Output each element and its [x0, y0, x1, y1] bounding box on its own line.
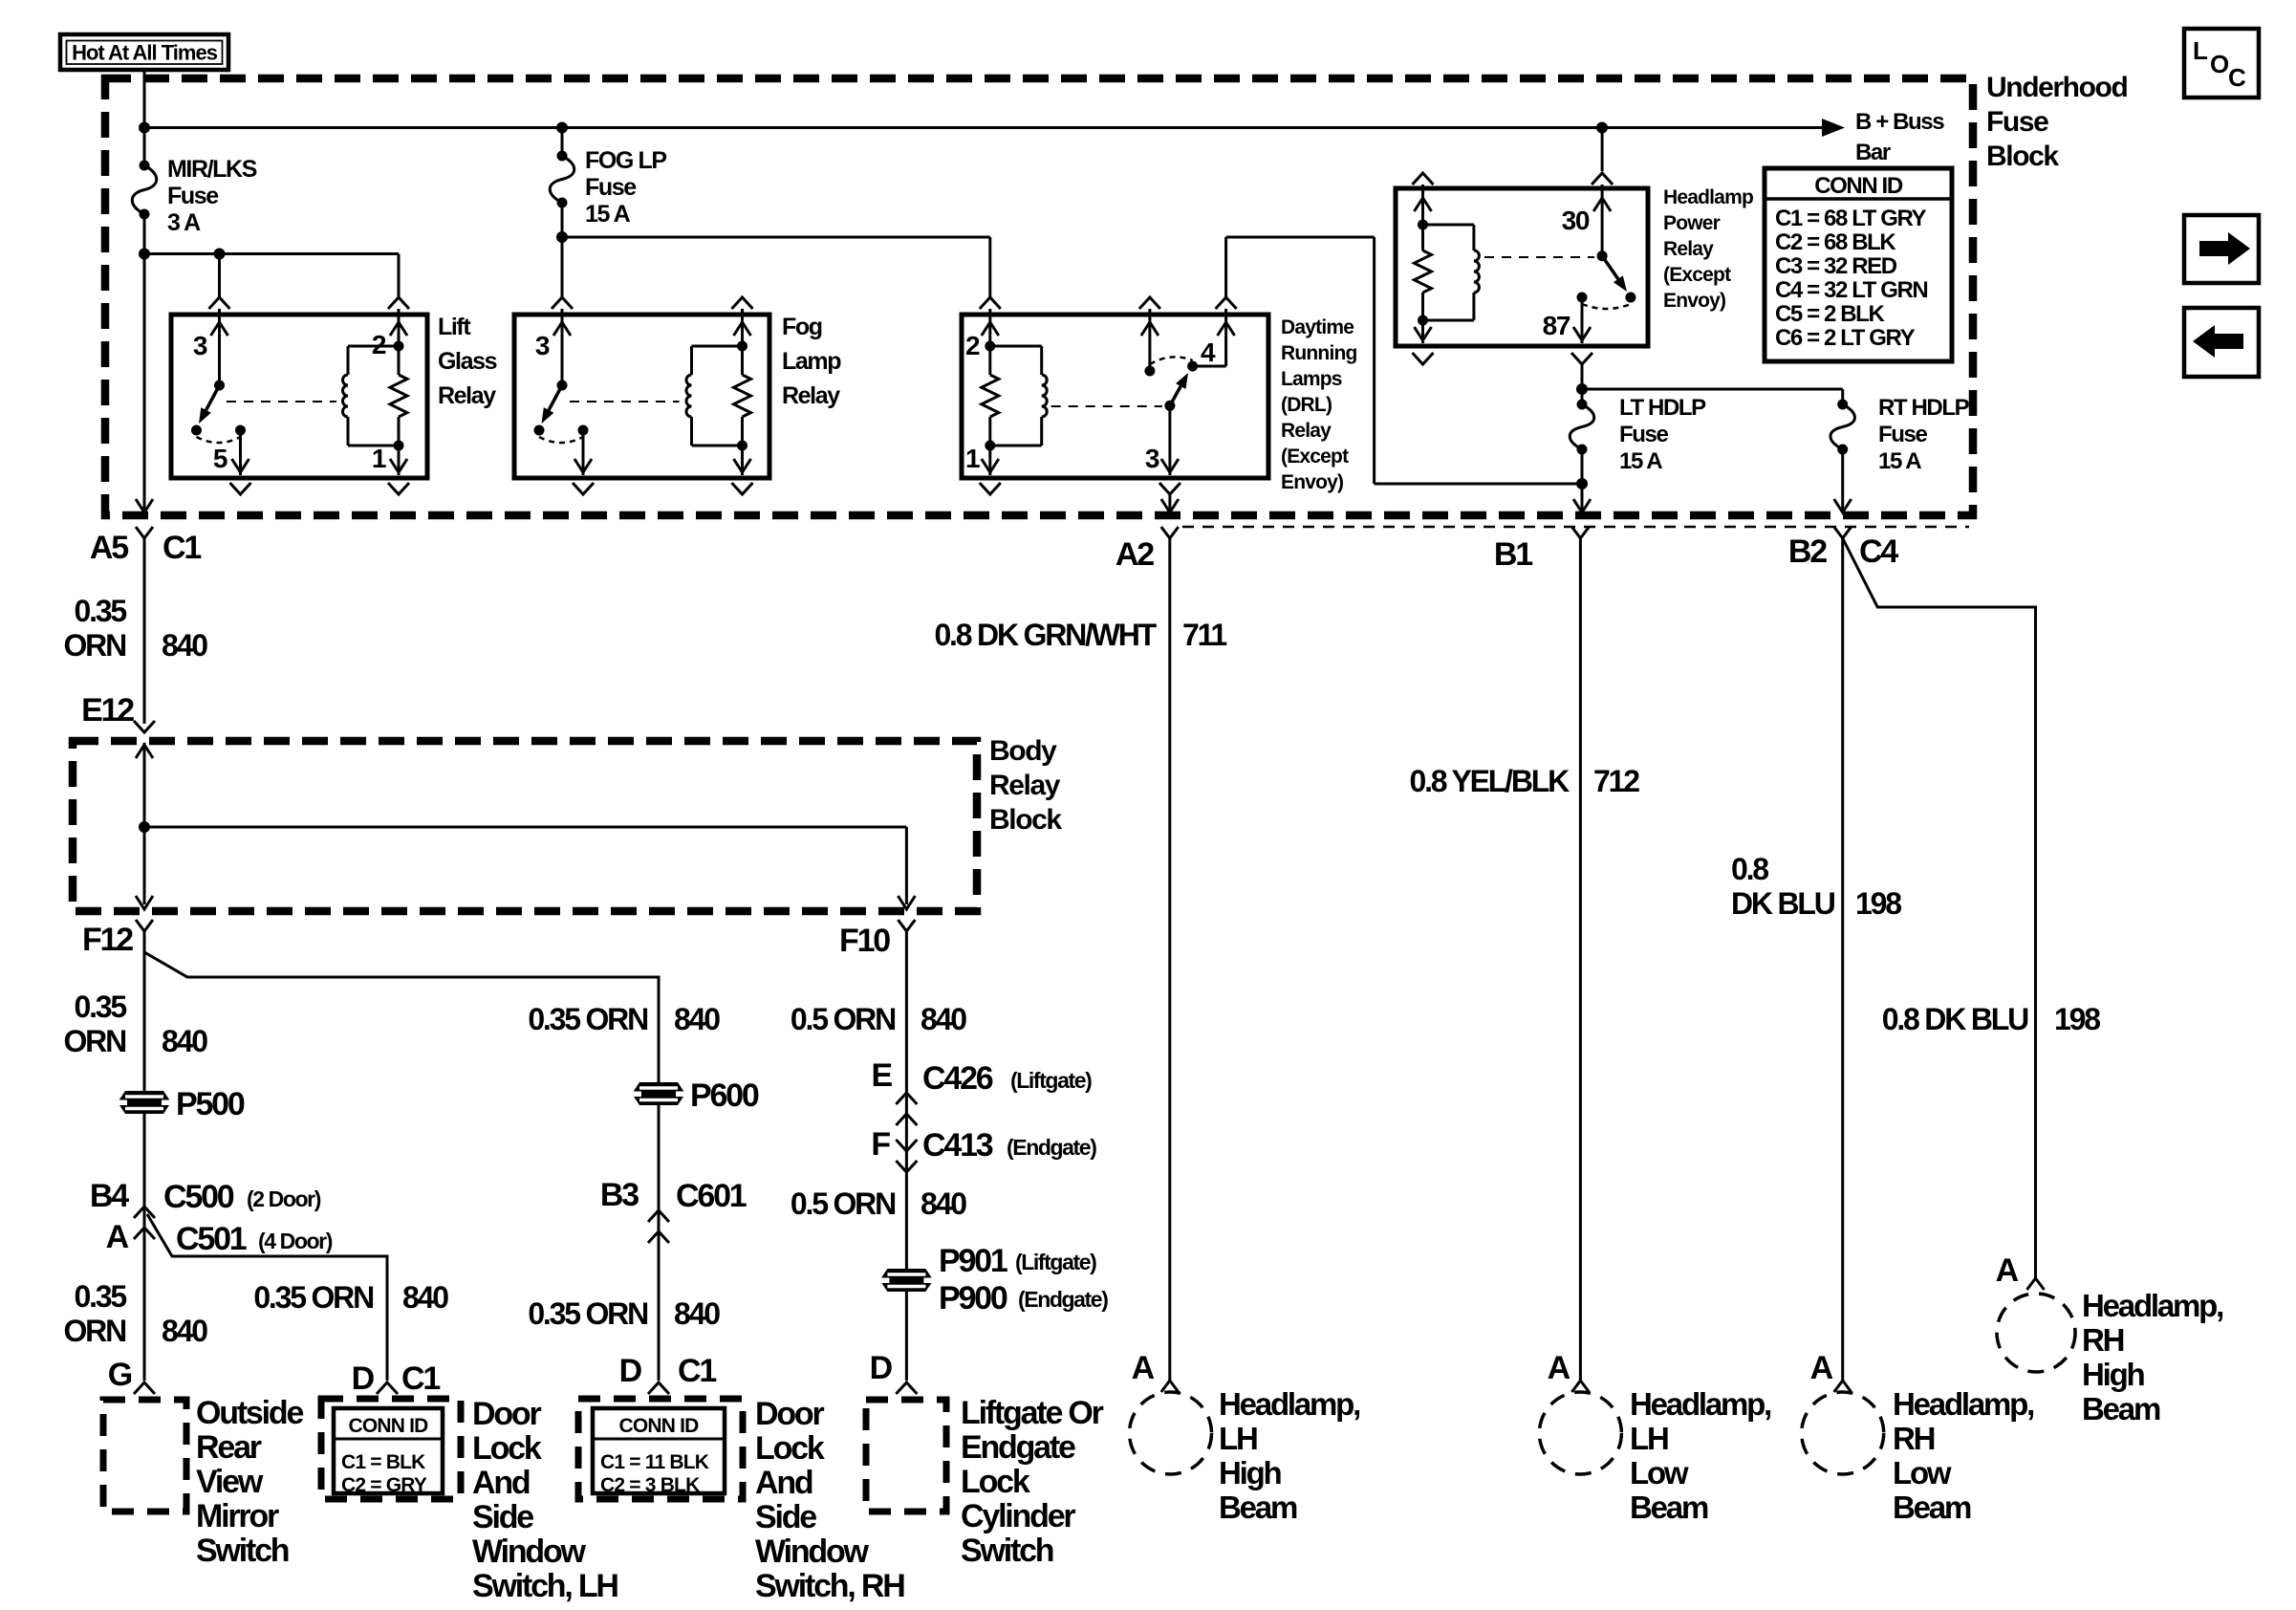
resistor K1 [390, 375, 407, 417]
Body Relay Block dashed enclosure [73, 741, 977, 911]
svg-text:C413: C413 [922, 1127, 993, 1164]
relay Headlamp Power box [1396, 188, 1648, 346]
svg-text:4: 4 [1201, 337, 1216, 367]
contact dot K2 b [578, 425, 589, 436]
switch arc K1 [197, 437, 241, 443]
DRL switch blade [1170, 386, 1180, 405]
connector chevron below HP coil pin [1413, 353, 1434, 364]
wire A2 to LH high beam [1168, 538, 1171, 1381]
pin 87 lead [1581, 297, 1584, 343]
svg-text:Rear: Rear [196, 1429, 262, 1466]
wire E12 inside body block [143, 743, 146, 904]
svg-text:A2: A2 [1116, 536, 1154, 573]
relay Fog Lamp Relay box [514, 315, 769, 478]
svg-text:Cylinder: Cylinder [961, 1498, 1075, 1534]
svg-text:Relay: Relay [1663, 238, 1714, 260]
DRL coil branch [990, 345, 1042, 348]
svg-text:Headlamp,: Headlamp, [1219, 1386, 1359, 1422]
svg-text:C1: C1 [401, 1360, 440, 1397]
connector chevron below DRL pin1 [980, 483, 1001, 494]
linkage dashed K1 [227, 401, 336, 402]
svg-text:30: 30 [1562, 206, 1590, 235]
svg-text:15 A: 15 A [585, 201, 631, 228]
node bus at FOG LP fuse [556, 122, 568, 134]
svg-text:L: L [2193, 36, 2208, 65]
svg-text:840: 840 [921, 1186, 966, 1221]
fuse FOG LP 15A [561, 128, 564, 157]
HP coil bottom lead [1421, 320, 1424, 343]
svg-text:C6 = 2 LT GRY: C6 = 2 LT GRY [1775, 325, 1916, 351]
svg-text:B3: B3 [600, 1177, 639, 1213]
svg-text:2: 2 [965, 331, 980, 360]
LOC reference box [2184, 29, 2259, 98]
Door Lock LH dashed box [321, 1399, 461, 1499]
svg-text:B + Buss: B + Buss [1855, 109, 1944, 135]
lamp Headlamp RH Low Beam [1802, 1392, 1884, 1474]
svg-text:15 A: 15 A [1619, 448, 1662, 474]
svg-text:Beam: Beam [1219, 1490, 1297, 1525]
wire C4 to RH high beam [1843, 538, 2036, 1278]
pin 5 lead [239, 430, 242, 475]
svg-text:Fuse: Fuse [167, 183, 219, 209]
connector chevron above fog coil pin [732, 297, 753, 309]
svg-text:Fog: Fog [782, 314, 822, 340]
svg-text:Daytime: Daytime [1281, 316, 1354, 338]
svg-text:840: 840 [162, 1314, 207, 1348]
DRL switch pivot dot [1164, 401, 1175, 411]
switch arc K2 [539, 437, 583, 443]
svg-text:Fuse: Fuse [1878, 422, 1927, 447]
splice P500 [118, 1091, 171, 1114]
svg-text:Switch: Switch [961, 1533, 1053, 1569]
svg-text:Low: Low [1893, 1455, 1952, 1490]
connector chevron above pin3 [209, 297, 230, 309]
svg-text:0.35 ORN: 0.35 ORN [528, 1002, 647, 1036]
svg-text:Relay: Relay [1281, 420, 1332, 442]
HP switch blade [1602, 256, 1618, 279]
coil branch K1 [348, 345, 399, 348]
svg-text:840: 840 [674, 1296, 720, 1331]
Door Lock RH dashed box [578, 1399, 743, 1499]
wire body block to F10 [144, 826, 906, 829]
node below FOG LP fuse [556, 231, 568, 243]
svg-text:(DRL): (DRL) [1281, 394, 1332, 416]
pin 1 lead [398, 446, 401, 475]
svg-text:Mirror: Mirror [196, 1498, 279, 1534]
connector F12 [136, 920, 153, 931]
relay DRL box [962, 315, 1268, 478]
fog bottom-left pin lead [582, 430, 585, 475]
svg-text:Side: Side [472, 1499, 533, 1535]
svg-text:P901: P901 [939, 1243, 1007, 1279]
svg-text:B4: B4 [90, 1178, 129, 1214]
svg-text:Switch: Switch [196, 1533, 289, 1569]
svg-text:Lock: Lock [961, 1464, 1030, 1500]
svg-text:Underhood: Underhood [1986, 72, 2127, 103]
svg-text:C2 = GRY: C2 = GRY [341, 1474, 427, 1496]
svg-text:Envoy): Envoy) [1281, 471, 1343, 493]
connector C501 [134, 1228, 155, 1239]
svg-text:CONN ID: CONN ID [348, 1415, 428, 1437]
wire B1 to LH low beam [1579, 538, 1582, 1381]
relay Lift Glass Relay box [171, 315, 427, 478]
pin 2 lead [398, 309, 401, 346]
connector chevron below pin5 [230, 483, 251, 494]
svg-text:3 A: 3 A [167, 209, 201, 236]
svg-text:F10: F10 [839, 923, 890, 959]
DRL pin 3 lead [1168, 405, 1171, 475]
svg-text:0.35 ORN: 0.35 ORN [528, 1296, 647, 1331]
DRL pin4 link [1193, 365, 1226, 368]
svg-text:Lift: Lift [438, 314, 471, 340]
svg-text:Fuse: Fuse [585, 174, 637, 201]
svg-text:C1 = BLK: C1 = BLK [341, 1451, 425, 1473]
svg-text:0.8: 0.8 [1731, 852, 1768, 886]
svg-text:Bar: Bar [1855, 140, 1891, 165]
svg-text:C500: C500 [163, 1179, 234, 1215]
connector chevron above HP coil pin [1413, 173, 1434, 185]
fog coil top node [737, 341, 747, 352]
svg-text:D: D [870, 1350, 893, 1386]
svg-text:712: 712 [1593, 764, 1639, 798]
DRL coil top node [985, 341, 995, 352]
svg-text:Running: Running [1281, 342, 1357, 364]
svg-text:P900: P900 [939, 1280, 1007, 1316]
svg-text:C4: C4 [1859, 533, 1898, 570]
wire drop to pin 3 [218, 254, 221, 299]
svg-text:MIR/LKS: MIR/LKS [167, 156, 257, 183]
DRL resistor [982, 375, 999, 417]
svg-text:P600: P600 [690, 1077, 759, 1114]
svg-text:Low: Low [1630, 1455, 1689, 1490]
wire branch C501 to door lock LH [147, 1214, 387, 1381]
svg-text:Headlamp,: Headlamp, [1893, 1386, 2033, 1422]
svg-text:A: A [1132, 1350, 1155, 1386]
svg-text:3: 3 [1145, 444, 1159, 473]
svg-text:C1 = 11 BLK: C1 = 11 BLK [600, 1451, 709, 1473]
svg-text:Window: Window [472, 1534, 587, 1570]
svg-text:Relay: Relay [989, 770, 1061, 801]
splice P600 [632, 1082, 685, 1105]
svg-text:5: 5 [213, 444, 227, 473]
svg-text:Fuse: Fuse [1986, 106, 2048, 138]
svg-text:B1: B1 [1494, 536, 1532, 573]
svg-text:(Except: (Except [1281, 446, 1349, 468]
svg-text:DK BLU: DK BLU [1731, 886, 1835, 921]
svg-text:O: O [2210, 50, 2229, 78]
lamp Headlamp LH High Beam [1130, 1392, 1212, 1474]
svg-text:A: A [1548, 1350, 1570, 1386]
svg-text:C3 = 32 RED: C3 = 32 RED [1775, 253, 1897, 279]
svg-text:Beam: Beam [2082, 1391, 2160, 1426]
coil bottom node K1 [394, 441, 404, 451]
svg-text:840: 840 [162, 1024, 207, 1058]
wire bus to pin 30 [1601, 128, 1604, 172]
svg-text:View: View [196, 1464, 264, 1500]
svg-text:Side: Side [755, 1499, 816, 1535]
contact dot K2 a [534, 425, 545, 436]
svg-text:840: 840 [162, 628, 207, 663]
svg-text:Beam: Beam [1630, 1490, 1708, 1525]
svg-text:LH: LH [1219, 1421, 1257, 1456]
fog resistor [734, 375, 751, 417]
svg-text:0.8 DK GRN/WHT: 0.8 DK GRN/WHT [934, 618, 1157, 652]
wire P600 to door lock RH [658, 1105, 661, 1381]
svg-text:Door: Door [472, 1396, 541, 1432]
connector B2/C4 [1834, 527, 1852, 538]
svg-text:High: High [1219, 1455, 1282, 1490]
svg-text:RT HDLP: RT HDLP [1878, 395, 1970, 421]
wire to RT fuse [1582, 388, 1843, 391]
DRL coil bottom node [985, 441, 995, 451]
svg-text:1: 1 [372, 444, 386, 473]
fog coil bottom pin lead [741, 446, 744, 475]
svg-text:0.35 ORN: 0.35 ORN [253, 1280, 373, 1315]
fuse LT HDLP 15A [1581, 389, 1584, 404]
wire B2 to RH low beam [1841, 538, 1844, 1381]
fog coil bottom node [737, 441, 747, 451]
svg-text:(4 Door): (4 Door) [258, 1229, 333, 1253]
svg-text:C1: C1 [678, 1353, 716, 1389]
HP coil bottom node [1418, 315, 1428, 326]
svg-text:Lamp: Lamp [782, 348, 841, 375]
svg-text:Liftgate Or: Liftgate Or [961, 1395, 1104, 1431]
svg-text:(2 Door): (2 Door) [247, 1186, 321, 1211]
switch blade K1 [206, 385, 220, 410]
svg-text:Door: Door [755, 1396, 824, 1432]
svg-text:D: D [619, 1353, 642, 1389]
fog coil branch [692, 345, 743, 348]
fuse MIR/LKS 3A [143, 128, 146, 166]
HP linkage dashed [1484, 256, 1594, 258]
svg-text:(Liftgate): (Liftgate) [1010, 1068, 1092, 1093]
svg-text:Block: Block [989, 804, 1062, 836]
wire B+ bus bar [144, 126, 1831, 129]
svg-text:A5: A5 [90, 530, 128, 566]
svg-text:ORN: ORN [63, 1314, 125, 1348]
HP coil top lead [1421, 185, 1424, 225]
wire DRL pin3 to A2 [1168, 494, 1171, 511]
svg-text:Window: Window [755, 1534, 870, 1570]
svg-text:198: 198 [2054, 1002, 2100, 1036]
node bus at headlamp relay pin30 [1596, 122, 1608, 134]
contact dot K1 a [191, 425, 202, 436]
svg-text:CONN ID: CONN ID [1814, 173, 1903, 199]
connector A5/C1 [136, 527, 153, 538]
CONN ID table RH [593, 1408, 725, 1493]
fuse RT HDLP 15A [1837, 400, 1848, 410]
thin connector-face dashed line below fuse block [1182, 526, 1969, 529]
CONN ID table Underhood [1765, 168, 1952, 361]
arrow to B+ Buss Bar [1822, 119, 1845, 137]
HP pin87 contact dot [1577, 293, 1588, 303]
svg-text:P500: P500 [176, 1086, 245, 1122]
svg-text:A: A [1810, 1350, 1833, 1386]
DRL linkage dashed [1051, 405, 1162, 407]
svg-text:Relay: Relay [438, 382, 496, 409]
svg-text:G: G [108, 1357, 132, 1393]
node HDLP fuse feed [1576, 383, 1588, 395]
svg-text:A: A [1996, 1252, 2019, 1289]
svg-text:Beam: Beam [1893, 1490, 1971, 1525]
svg-text:C5 = 2 BLK: C5 = 2 BLK [1775, 301, 1885, 327]
connector chevron below fog coil pin [732, 483, 753, 494]
svg-text:0.5 ORN: 0.5 ORN [791, 1186, 895, 1221]
svg-text:Block: Block [1986, 141, 2059, 172]
Outside Rear View Mirror Switch dashed box [103, 1400, 186, 1512]
svg-text:0.35: 0.35 [75, 990, 127, 1024]
svg-text:C4 = 32 LT GRN: C4 = 32 LT GRN [1775, 277, 1927, 303]
node bus at MIR/LKS fuse [139, 122, 150, 134]
svg-text:RH: RH [2082, 1322, 2124, 1358]
HP resistor [1415, 250, 1432, 293]
connector chevron below DRL pin3 [1159, 483, 1180, 494]
svg-text:(Except: (Except [1663, 264, 1731, 286]
wire DRL pin4 to LT HDLP fuse output [1224, 237, 1227, 297]
connector chevron above DRL NC pin [1139, 297, 1160, 309]
connector chevron below fog switch pin [573, 483, 594, 494]
svg-text:0.35: 0.35 [75, 1279, 127, 1314]
node branch to pin3 [214, 249, 226, 260]
coil top node K1 [394, 341, 404, 352]
svg-text:(Endgate): (Endgate) [1018, 1287, 1108, 1312]
svg-text:C: C [2228, 63, 2246, 92]
DRL switch arc [1150, 357, 1193, 364]
svg-text:198: 198 [1855, 886, 1901, 921]
svg-text:C501: C501 [176, 1221, 247, 1257]
svg-text:711: 711 [1182, 618, 1226, 652]
svg-text:0.8 YEL/BLK: 0.8 YEL/BLK [1410, 764, 1570, 798]
connector B1 [1571, 527, 1589, 538]
HP coil top node [1418, 220, 1428, 230]
svg-text:Envoy): Envoy) [1663, 290, 1725, 312]
svg-text:RH: RH [1893, 1421, 1935, 1456]
connector A2 [1161, 527, 1179, 538]
svg-text:3: 3 [193, 331, 207, 360]
svg-text:FOG LP: FOG LP [585, 147, 666, 174]
connector chevron below pin1 [388, 483, 409, 494]
connector chevron below pin87 [1571, 353, 1592, 364]
svg-text:Hot At All Times: Hot At All Times [72, 41, 218, 65]
svg-text:A: A [106, 1219, 129, 1255]
svg-text:840: 840 [674, 1002, 720, 1036]
power source label box 'Hot At All Times' [60, 34, 228, 70]
DRL NO contact dot [1187, 361, 1198, 372]
CONN ID table LH [334, 1408, 443, 1493]
DRL pin 2 lead [988, 309, 991, 346]
HP blade tip dot [1625, 293, 1635, 303]
svg-text:Glass: Glass [438, 348, 497, 375]
node LT fuse to DRL pin4 wire [1576, 478, 1588, 490]
svg-text:15 A: 15 A [1878, 448, 1921, 474]
wire branch to Lift Glass Relay pins [144, 252, 399, 255]
DRL NC contact dot [1144, 366, 1155, 377]
DRL NC contact lead [1148, 309, 1151, 371]
right-arrow navigation box [2184, 215, 2259, 283]
left-arrow navigation box [2184, 308, 2259, 377]
switch pivot dot K2 [557, 381, 568, 391]
svg-text:Switch, LH: Switch, LH [472, 1568, 617, 1604]
svg-text:Endgate: Endgate [961, 1429, 1075, 1466]
HP switch arc [1582, 304, 1631, 309]
svg-text:Headlamp,: Headlamp, [2082, 1288, 2222, 1323]
svg-text:840: 840 [921, 1002, 966, 1036]
svg-text:C1: C1 [162, 530, 201, 566]
lamp Headlamp RH High Beam [1997, 1294, 2075, 1372]
wire A5 to E12 [143, 538, 146, 724]
svg-text:LH: LH [1630, 1421, 1668, 1456]
svg-text:C2 = 68 BLK: C2 = 68 BLK [1775, 229, 1896, 255]
svg-text:Lamps: Lamps [1281, 368, 1342, 390]
wire from Hot At All Times to B+ bus [143, 69, 146, 128]
svg-text:C426: C426 [922, 1060, 993, 1097]
wire F12 down [143, 931, 146, 1381]
node below MIR/LKS fuse [139, 249, 150, 260]
svg-text:Headlamp,: Headlamp, [1630, 1386, 1770, 1422]
wire F10 down [905, 931, 908, 1381]
fog pin 3 lead [561, 309, 564, 385]
node body block branch [139, 821, 150, 833]
connector chevron above pin2 [388, 297, 409, 309]
svg-text:D: D [352, 1360, 375, 1397]
svg-text:Lock: Lock [755, 1430, 825, 1467]
svg-text:3: 3 [535, 331, 550, 360]
connector E12 [134, 721, 155, 732]
svg-text:B2: B2 [1788, 533, 1827, 570]
connector chevron above fog pin3 [552, 297, 573, 309]
HP coil branch [1423, 224, 1474, 227]
svg-text:C1 = 68 LT GRY: C1 = 68 LT GRY [1775, 206, 1927, 231]
switch pivot dot K1 [214, 381, 225, 391]
svg-text:Body: Body [989, 735, 1057, 767]
svg-text:(Liftgate): (Liftgate) [1015, 1250, 1096, 1274]
svg-text:C2 = 3 BLK: C2 = 3 BLK [600, 1474, 700, 1496]
svg-text:1: 1 [965, 444, 980, 473]
svg-text:840: 840 [402, 1280, 448, 1315]
svg-text:87: 87 [1543, 311, 1570, 340]
wire fog fuse to DRL pin2 [562, 236, 990, 239]
contact dot K1 b (pin5) [235, 425, 246, 436]
wire MIR fuse to A5 exit [143, 254, 146, 511]
connector chevron above DRL pin4 [1216, 297, 1237, 309]
wire branch F12 to P600 column [144, 952, 659, 1082]
svg-text:F12: F12 [82, 922, 133, 958]
svg-text:Outside: Outside [196, 1395, 303, 1431]
svg-text:LT HDLP: LT HDLP [1619, 395, 1706, 421]
svg-text:Power: Power [1663, 212, 1721, 234]
svg-text:0.8 DK BLU: 0.8 DK BLU [1882, 1002, 2028, 1036]
svg-text:And: And [472, 1465, 530, 1501]
switch blade K2 [549, 385, 562, 410]
svg-text:Lock: Lock [472, 1430, 542, 1467]
svg-text:0.5 ORN: 0.5 ORN [791, 1002, 895, 1036]
svg-text:ORN: ORN [63, 1024, 125, 1058]
connector chevron above pin30 [1592, 173, 1613, 185]
connector F10 [898, 920, 915, 931]
linkage dashed K2 [570, 401, 680, 402]
svg-text:Relay: Relay [782, 382, 840, 409]
svg-text:E: E [872, 1057, 893, 1094]
svg-text:CONN ID: CONN ID [618, 1415, 699, 1437]
wire fog fuse to fog relay pin3 [561, 237, 564, 298]
svg-text:Fuse: Fuse [1619, 422, 1668, 447]
pin 30 lead [1601, 185, 1604, 256]
svg-text:(Endgate): (Endgate) [1007, 1135, 1096, 1160]
connector C500 [134, 1207, 155, 1218]
HP switch top dot [1597, 250, 1608, 261]
svg-text:0.35: 0.35 [75, 594, 127, 628]
wire pin87 to fuses [1581, 364, 1584, 389]
